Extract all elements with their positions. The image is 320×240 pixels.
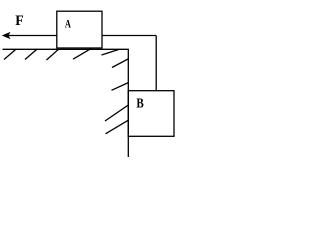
- surface hatch 2: [25, 49, 37, 60]
- surface hatch 1: [4, 49, 16, 60]
- string vertical down to B: [155, 36, 157, 91]
- wall edge line: [127, 49, 129, 157]
- svg-text:F: F: [15, 13, 24, 30]
- svg-text:A: A: [65, 18, 71, 31]
- block A: [57, 11, 102, 48]
- wall hatch 2: [112, 83, 129, 91]
- wall hatch 3: [105, 105, 128, 121]
- wall hatch 1: [112, 59, 128, 68]
- wire force line F: [8, 35, 57, 37]
- svg-text:B: B: [136, 95, 144, 111]
- surface hatch 5: [102, 49, 120, 55]
- arrowhead of force F: [2, 32, 11, 39]
- table surface line: [3, 48, 129, 50]
- surface hatch 3: [47, 49, 59, 60]
- string from A to corner: [102, 35, 156, 37]
- surface hatch 4: [73, 49, 91, 60]
- block B: [128, 91, 174, 137]
- wall hatch 4: [106, 120, 129, 134]
